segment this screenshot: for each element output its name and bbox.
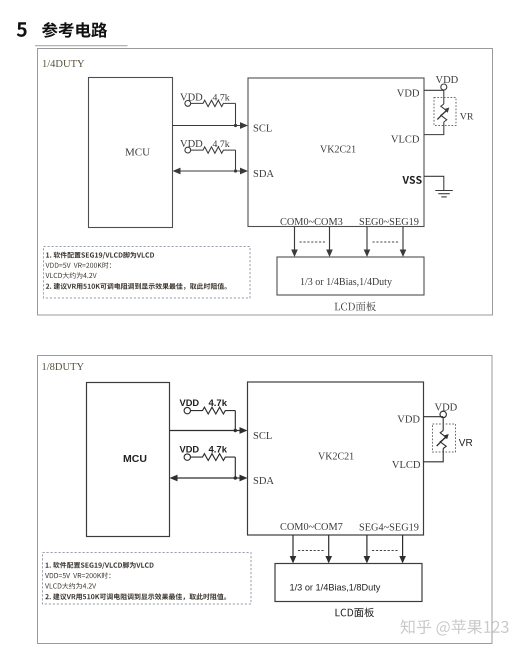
svg-text:SDA: SDA (253, 169, 274, 180)
note line 1 (46, 252, 154, 259)
wire R3 down to SCL (234, 411, 236, 431)
svg-text:4.7k: 4.7k (209, 398, 228, 409)
svg-text:VDD: VDD (397, 415, 420, 426)
ground symbol (435, 191, 453, 197)
svg-text:VLCD: VLCD (392, 460, 421, 471)
svg-text:VDD: VDD (397, 89, 420, 100)
caption LCD面板 (1/8 duty) (336, 608, 375, 618)
VDD terminal circle 1 (1/8) (184, 407, 190, 413)
bus wire COM/SEG arrow 1 (1/4 duty) (291, 227, 298, 258)
caption LCD面板 (1/4 duty) (335, 302, 376, 312)
svg-text:VDD: VDD (436, 75, 459, 86)
VR dashed enclosure (434, 98, 456, 126)
VDD terminal circle (VR) (441, 84, 447, 90)
svg-text:SCL: SCL (253, 431, 272, 442)
bus wire COM/SEG arrow 3 (1/8 duty) (364, 535, 371, 564)
resistor R3 4.7k (SCL pull-up 1/8) (191, 407, 236, 414)
wire SDA (bidirectional MCU-VK2C21) (173, 168, 249, 175)
wire VDD pin to VR branch (1/8) (424, 417, 444, 431)
svg-text:4.7k: 4.7k (209, 445, 228, 456)
note line 3 (46, 272, 97, 278)
junction dot R4/SDA (234, 476, 237, 479)
svg-text:VDD: VDD (435, 402, 458, 413)
svg-text:VDD: VDD (180, 92, 203, 103)
wire VSS to ground (424, 176, 444, 190)
section number 5 (17, 22, 27, 37)
VDD terminal circle 2 (185, 147, 191, 153)
svg-text:1/8DUTY: 1/8DUTY (42, 362, 85, 373)
resistor R2 4.7k (SDA pull-up) (191, 147, 236, 153)
bus continuation dashes (SEG group) (373, 241, 400, 243)
note line 2 (1/8) (45, 572, 111, 578)
VR dashed enclosure (1/8) (433, 424, 456, 452)
note line 3 (1/8) (45, 583, 96, 589)
junction dot R1/SCL (234, 124, 237, 127)
bus wire COM/SEG arrow 4 (1/8 duty) (399, 535, 406, 564)
svg-text:4.7k: 4.7k (213, 139, 230, 150)
wire R4 down to SDA (234, 457, 236, 478)
svg-text:VR: VR (460, 111, 474, 122)
note line 2 (46, 262, 112, 268)
pin label VSS (402, 176, 421, 184)
resistor R4 4.7k (SDA pull-up 1/8) (191, 454, 236, 461)
potentiometer VR body (441, 104, 447, 122)
bus continuation dashes (SEG group 1/8) (372, 550, 398, 552)
frame: 1/4DUTY reference circuit border (38, 49, 493, 316)
svg-text:VLCD: VLCD (391, 135, 420, 146)
wire SCL (1/8) with arrow (170, 427, 248, 434)
svg-text:VR: VR (459, 438, 473, 449)
resistor R1 4.7k (SCL pull-up) (191, 100, 236, 106)
LCD panel block (1/4 duty) (277, 257, 424, 295)
note line 4 (46, 283, 227, 290)
svg-text:1/3 or 1/4Bias,1/8Duty: 1/3 or 1/4Bias,1/8Duty (290, 582, 381, 592)
svg-text:1/3 or 1/4Bias,1/4Duty: 1/3 or 1/4Bias,1/4Duty (300, 277, 392, 288)
svg-text:COM0~COM3: COM0~COM3 (280, 217, 343, 228)
bus wire COM/SEG arrow 3 (1/4 duty) (364, 227, 371, 258)
svg-text:VK2C21: VK2C21 (318, 451, 354, 462)
potentiometer VR wiper arrow (437, 108, 449, 120)
svg-text:VK2C21: VK2C21 (320, 145, 356, 156)
svg-text:1/4DUTY: 1/4DUTY (42, 59, 85, 70)
bus continuation dashes (COM group 1/8) (298, 550, 324, 552)
svg-text:SDA: SDA (253, 476, 274, 487)
svg-text:4.7k: 4.7k (213, 93, 230, 104)
wire SCL (MCU to VK2C21) with arrow (173, 122, 249, 129)
IC U2 VK2C21 (1/8 duty) (248, 382, 424, 535)
svg-text:MCU: MCU (125, 147, 150, 159)
wire VR bottom to VLCD pin (1/8) (424, 449, 444, 462)
frame: 1/8DUTY reference circuit border (38, 356, 493, 644)
bus wire COM/SEG arrow 2 (1/4 duty) (326, 227, 333, 258)
note box (1/8 duty) (43, 553, 252, 605)
title underline (35, 45, 128, 47)
IC U1 VK2C21 (1/4 duty) (248, 78, 424, 227)
bus wire COM/SEG arrow 1 (1/8 duty) (290, 535, 297, 564)
junction dot R3/SCL (234, 429, 237, 432)
note line 1 (1/8) (46, 562, 154, 569)
bus wire COM/SEG arrow 4 (1/4 duty) (400, 227, 407, 258)
svg-text:SEG4~SEG19: SEG4~SEG19 (359, 522, 419, 533)
wire VR bottom to VLCD pin (424, 122, 444, 135)
svg-text:MCU: MCU (123, 453, 147, 465)
section title 参考电路 (42, 22, 107, 38)
MCU block (1/4 duty) (89, 78, 173, 228)
wire R1 down to SCL (235, 103, 237, 125)
note box (1/4 duty) (44, 247, 251, 299)
bus wire COM/SEG arrow 2 (1/8 duty) (325, 535, 332, 564)
VDD terminal circle 2 (1/8) (184, 454, 190, 460)
svg-text:VDD: VDD (180, 398, 200, 408)
LCD panel block (1/8 duty) (275, 564, 422, 602)
svg-text:COM0~COM7: COM0~COM7 (280, 522, 343, 533)
MCU block (1/8 duty) (87, 383, 170, 537)
svg-text:SEG0~SEG19: SEG0~SEG19 (359, 217, 419, 228)
potentiometer VR wiper arrow (1/8) (437, 434, 449, 446)
svg-text:SCL: SCL (253, 124, 272, 135)
wire VDD pin to VR branch (424, 90, 444, 104)
junction dot R2/SDA (234, 169, 237, 172)
svg-text:VDD: VDD (180, 139, 203, 150)
VDD terminal circle (VR 1/8) (440, 411, 446, 417)
note line 4 (1/8) (45, 593, 226, 600)
watermark 知乎 @苹果123 (401, 619, 509, 635)
svg-text:VDD: VDD (180, 444, 200, 454)
bus continuation dashes (COM group) (300, 241, 326, 243)
potentiometer VR body (1/8) (440, 431, 446, 449)
VDD terminal circle 1 (185, 101, 191, 107)
wire SDA (1/8) bidirectional (170, 475, 248, 482)
wire R2 down to SDA (235, 150, 237, 171)
